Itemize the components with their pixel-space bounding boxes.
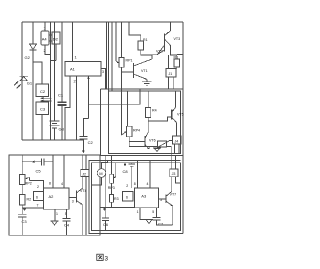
IC A4 xyxy=(41,31,49,45)
svg-text:2: 2 xyxy=(37,185,39,189)
wire G2 rail xyxy=(32,22,34,44)
wire A1 pin left xyxy=(65,76,70,140)
diode D2 xyxy=(52,32,60,44)
capacitor C3 box xyxy=(36,102,49,115)
wire VT7 collector xyxy=(171,177,173,192)
wire pin8 A3 xyxy=(137,161,139,189)
resistor R2 xyxy=(20,195,26,206)
wire stub xyxy=(51,59,57,61)
svg-text:VT7: VT7 xyxy=(170,193,177,197)
wire A1 output pin down xyxy=(87,76,90,118)
capacitor C1 xyxy=(58,102,67,105)
svg-text:1: 1 xyxy=(75,55,78,60)
capacitor C2 (lower electrolytic) xyxy=(79,137,87,140)
motor M xyxy=(97,169,106,178)
wire RP1 bottom to VT1 base and down xyxy=(121,67,123,135)
svg-text:VT2: VT2 xyxy=(156,50,163,54)
svg-text:4: 4 xyxy=(61,182,63,186)
wire rail x50.5 xyxy=(50,22,52,140)
wire pin3 xyxy=(69,197,76,199)
svg-text:3: 3 xyxy=(72,199,74,203)
wire VT8 emitter down xyxy=(81,205,83,236)
wire top bus xyxy=(22,21,183,23)
svg-text:3: 3 xyxy=(105,256,109,263)
capacitor C7 xyxy=(153,218,161,221)
wire RP1 top xyxy=(121,22,123,58)
wire A4-D2 link top xyxy=(49,34,52,36)
wire pin1 xyxy=(54,209,56,221)
diode G2 xyxy=(30,44,37,50)
wire J1 left top xyxy=(168,55,170,69)
svg-text:1: 1 xyxy=(56,212,58,216)
photodiode G1 xyxy=(14,76,28,88)
wire J3 right bottom xyxy=(176,177,181,183)
svg-text:C2: C2 xyxy=(40,89,46,94)
ground A3 xyxy=(145,220,153,224)
capacitor C8 xyxy=(124,163,135,167)
wiper arrow RP2 xyxy=(25,178,30,181)
svg-text:A4: A4 xyxy=(42,37,48,42)
wire A4 pin2 xyxy=(45,45,51,55)
wire VT8 collector to J2 xyxy=(82,177,84,188)
wire VT6 emitter to bus xyxy=(148,147,150,150)
svg-text:VT3: VT3 xyxy=(174,37,181,41)
battery G3 xyxy=(50,121,60,128)
wire RP2 top xyxy=(21,155,23,175)
wire A1 pin3 xyxy=(101,69,106,90)
wire pin7 run A3 xyxy=(100,207,135,209)
wire J1 bottom wires xyxy=(168,77,170,89)
transistor VT2 xyxy=(158,44,165,55)
relay J1 xyxy=(166,69,176,78)
wire R5 top xyxy=(176,55,178,59)
svg-text:A3: A3 xyxy=(141,194,147,199)
wire rail C1 xyxy=(61,22,63,102)
wire RP2 to R2 xyxy=(21,185,23,195)
wire VT6 base stub xyxy=(129,141,145,143)
capacitor C5 xyxy=(22,158,53,165)
wire block2 top left rail to bus xyxy=(108,22,110,91)
wire A4 pin1 xyxy=(44,22,46,31)
svg-text:VT1: VT1 xyxy=(141,69,148,73)
wire VT1 base xyxy=(122,71,134,73)
IC A2 xyxy=(44,188,70,209)
block bottom-left border xyxy=(9,155,100,235)
wire R1 bottom xyxy=(141,50,152,55)
svg-text:C7: C7 xyxy=(158,222,164,227)
svg-text:6: 6 xyxy=(36,196,38,200)
wire RP3 to R3 xyxy=(111,183,113,194)
svg-text:J2: J2 xyxy=(82,172,86,176)
wire J4 bottom wires xyxy=(174,144,176,154)
svg-text:RP1: RP1 xyxy=(126,59,133,63)
svg-text:R3: R3 xyxy=(114,197,119,201)
svg-text:7: 7 xyxy=(37,204,39,208)
wire below G2 xyxy=(32,50,34,140)
wire R1 feed xyxy=(129,22,141,41)
wiper arrow RP1 xyxy=(116,61,119,63)
svg-text:J1: J1 xyxy=(169,72,173,76)
wire pin1 A3 xyxy=(140,208,149,220)
wire pin8 xyxy=(52,155,54,188)
relay contact K xyxy=(158,141,173,148)
svg-text:G1: G1 xyxy=(27,80,33,85)
svg-text:2: 2 xyxy=(126,184,128,188)
wiper arrow RP4 xyxy=(122,132,127,136)
wire below C1 xyxy=(61,105,63,140)
wiper arrow RP3 xyxy=(114,163,116,178)
potentiometer RP4 xyxy=(127,126,133,137)
wire A1 pin1 xyxy=(72,22,74,62)
wire below G3 xyxy=(54,128,56,140)
svg-text:8: 8 xyxy=(49,182,51,186)
wire rail x106.5 xyxy=(106,22,108,89)
wire R4 bottom node xyxy=(147,117,149,132)
wire RP4 bottom xyxy=(129,137,149,147)
wire A4-D2 link bottom xyxy=(49,40,52,42)
svg-text:C6: C6 xyxy=(103,222,109,227)
svg-text:G2: G2 xyxy=(25,55,31,60)
svg-text:RP2: RP2 xyxy=(25,182,32,186)
wire J2 top xyxy=(82,155,84,170)
transistor VT3 xyxy=(165,31,171,46)
svg-text:5: 5 xyxy=(152,210,154,214)
transistor VT1 xyxy=(134,59,153,80)
svg-text:VT6: VT6 xyxy=(149,139,156,143)
wire pin5 A3 xyxy=(156,208,158,218)
wire pin4 A3 xyxy=(149,161,151,189)
wire pin2 A3 xyxy=(130,166,132,188)
wire VT1 collector xyxy=(151,55,153,59)
pin 6 box xyxy=(34,192,44,201)
potentiometer RP1 xyxy=(119,58,124,68)
svg-text:R5: R5 xyxy=(174,56,179,60)
capacitor C6 xyxy=(102,156,109,231)
wire VT7 emitter down xyxy=(172,206,174,225)
wire R2 bottom xyxy=(21,205,23,214)
wire RP1 wiper rail xyxy=(115,22,117,61)
relay J2 xyxy=(81,170,89,177)
wire J2 bottom right xyxy=(85,177,87,236)
wire pin3 A3 xyxy=(159,198,166,200)
svg-text:6: 6 xyxy=(126,195,128,199)
wire below C3 box xyxy=(41,115,43,141)
wire R4 top xyxy=(147,91,149,108)
wire C2cap feed xyxy=(83,118,88,136)
svg-text:4: 4 xyxy=(147,182,149,186)
capacitor C4 xyxy=(62,219,70,222)
svg-text:R4: R4 xyxy=(152,109,157,113)
relay J4 xyxy=(173,136,182,144)
wire to border xyxy=(177,54,183,56)
ground A2 xyxy=(51,221,59,225)
svg-text:RP4: RP4 xyxy=(133,129,140,133)
capacitor C3b xyxy=(18,214,27,217)
wire C2 down xyxy=(82,139,84,151)
svg-text:C8: C8 xyxy=(123,169,129,174)
wire pin5 xyxy=(66,209,68,218)
wire right border xyxy=(182,22,184,234)
capacitor C3b plus xyxy=(23,208,26,211)
wire VT3 collector rail xyxy=(170,22,172,31)
wire VT3 emitter chain xyxy=(171,46,177,56)
wire A1 pin2 xyxy=(76,76,78,140)
IC A3 xyxy=(135,188,159,208)
svg-text:J3: J3 xyxy=(172,172,176,176)
svg-text:C4: C4 xyxy=(64,223,70,228)
svg-text:A1: A1 xyxy=(70,67,76,72)
wire to VT5 base xyxy=(148,117,171,121)
caption 图3 xyxy=(97,254,103,260)
wire VT2 emitter to VT1 collector xyxy=(152,54,158,56)
wire left rail xyxy=(21,22,23,140)
svg-text:3: 3 xyxy=(102,70,104,74)
svg-text:C2: C2 xyxy=(88,140,94,145)
wire pin4 xyxy=(63,155,65,188)
wire C4 bottom xyxy=(66,221,68,235)
wire D2 bottom xyxy=(55,44,57,60)
wire rail x112 xyxy=(111,22,113,91)
IC A1 xyxy=(65,62,101,77)
wire VT2 collector link xyxy=(164,41,166,44)
wire bottom-left bus xyxy=(22,139,83,141)
svg-text:C5: C5 xyxy=(36,169,42,174)
wire middle block inner border xyxy=(109,91,181,154)
transistor VT6 xyxy=(145,132,149,149)
capacitor plates between xyxy=(40,97,51,102)
ground below VT1 xyxy=(142,80,152,86)
block bottom-right outer border xyxy=(89,161,183,234)
wire C7 bottom xyxy=(157,220,173,225)
wire contact line xyxy=(149,146,157,148)
wire pin7 xyxy=(22,207,43,209)
wire RP3 top xyxy=(111,156,113,175)
relay J3 xyxy=(170,169,178,177)
wire branch to cap stack xyxy=(33,62,42,84)
svg-text:VT5: VT5 xyxy=(177,113,184,117)
svg-text:M: M xyxy=(99,171,102,176)
resistor R4 xyxy=(145,108,150,118)
capacitor C2 box xyxy=(36,84,49,97)
ground VT6 xyxy=(153,148,161,152)
svg-text:1: 1 xyxy=(137,210,139,214)
transistor VT7 xyxy=(166,192,173,207)
wire R3 bottom xyxy=(111,202,113,207)
svg-text:A2: A2 xyxy=(49,194,55,199)
wire pin2 run xyxy=(30,181,44,189)
svg-text:R2: R2 xyxy=(27,198,32,202)
svg-text:D2: D2 xyxy=(53,37,59,42)
wire motor top xyxy=(102,161,108,169)
potentiometer RP3 xyxy=(110,174,114,183)
resistor R3 xyxy=(110,195,114,203)
pin 6 box A3 xyxy=(123,191,134,201)
svg-text:C3: C3 xyxy=(40,107,46,112)
svg-text:C1: C1 xyxy=(58,93,64,98)
svg-text:R1: R1 xyxy=(143,38,148,42)
svg-text:G3: G3 xyxy=(59,127,65,132)
wire J3 top wires xyxy=(170,154,172,170)
wire R5 bottom to J1 xyxy=(176,67,178,69)
resistor R1 xyxy=(138,41,144,50)
wire RP4 top rail xyxy=(127,91,129,126)
resistor R5 xyxy=(174,59,180,67)
svg-text:2: 2 xyxy=(74,79,77,84)
potentiometer RP2 xyxy=(20,175,26,185)
wire middle block outer border xyxy=(101,88,184,90)
block bottom-right inner border xyxy=(92,163,181,231)
wire branch to middle block xyxy=(89,89,141,104)
svg-text:J4: J4 xyxy=(175,139,179,143)
transistor VT8 xyxy=(76,188,83,205)
svg-text:8: 8 xyxy=(134,182,136,186)
wire rail x54.5 top xyxy=(54,22,56,121)
wire VT5 emitter to J4 xyxy=(176,123,178,137)
transistor VT5 xyxy=(172,108,177,123)
wire C3b bottom xyxy=(21,217,23,235)
wire VT5 collector top xyxy=(174,91,176,108)
wire motor bottom xyxy=(92,177,102,185)
